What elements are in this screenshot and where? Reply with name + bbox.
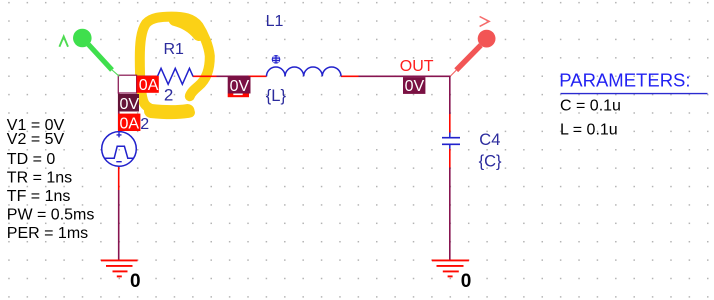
probe marker (red) thin tip wire	[451, 70, 457, 76]
bias current label 0A at source (over ref V2)	[118, 114, 140, 133]
ground 0 (right)	[432, 260, 469, 276]
capacitor C4 plates	[442, 138, 460, 145]
svg-text:TD = 0: TD = 0	[7, 151, 56, 168]
junction box (white) at source top node	[118, 75, 136, 93]
probe marker (green) head circle	[73, 29, 92, 48]
svg-text:0: 0	[130, 271, 141, 292]
svg-text:L1: L1	[266, 13, 284, 30]
wire: inductor right pin (red)	[341, 75, 359, 77]
svg-text:TF = 1ns: TF = 1ns	[7, 188, 71, 205]
bias current label 0A at resistor input	[137, 76, 159, 94]
wire: resistor right pin (red)	[193, 75, 217, 77]
resistor R1 zigzag	[158, 68, 194, 84]
svg-text:2: 2	[140, 116, 149, 133]
bias voltage label 0V between R1 and L1	[228, 76, 251, 97]
wire: source bottom pin (red)	[118, 166, 120, 190]
svg-text:2: 2	[164, 85, 173, 104]
source V2 pulse (VPULSE) body	[102, 132, 137, 167]
svg-text:R1: R1	[164, 41, 185, 58]
wire: main horizontal net from junction to resistor	[119, 75, 151, 77]
wire: capacitor bottom pin (red)	[449, 149, 451, 168]
svg-text:0V: 0V	[120, 96, 140, 113]
source V2 minus sign	[116, 161, 121, 163]
svg-text:OUT: OUT	[400, 58, 434, 75]
wire: vertical OUT net down to capacitor	[449, 76, 451, 115]
probe marker (green current probe) stem	[89, 45, 113, 71]
PARAMETERS block underline	[561, 93, 708, 95]
probe marker (red) chevron glyph	[480, 17, 490, 27]
source V2 plus sign	[117, 132, 122, 137]
svg-text:PW = 0.5ms: PW = 0.5ms	[7, 207, 95, 224]
source V2 parameter text block	[7, 117, 95, 242]
svg-text:L = 0.1u: L = 0.1u	[560, 122, 618, 139]
wire: source to left ground	[118, 190, 120, 260]
svg-text:{C}: {C}	[479, 152, 502, 170]
wire: net between resistor and inductor	[217, 75, 249, 77]
svg-text:C4: C4	[479, 131, 500, 149]
bias voltage label 0V at OUT	[403, 77, 425, 95]
inductor L1 coil	[267, 67, 342, 76]
probe marker (red) head circle	[478, 30, 496, 48]
svg-text:0A: 0A	[139, 77, 159, 94]
wire: inductor left pin (red)	[249, 75, 267, 77]
svg-text:0V: 0V	[230, 78, 250, 95]
bias voltage label 0V at source top	[118, 94, 139, 113]
svg-text:PER = 1ms: PER = 1ms	[7, 225, 88, 242]
svg-text:0V: 0V	[405, 78, 425, 95]
annotation: yellow highlighter loop around R1	[140, 17, 210, 113]
svg-text:V2 = 5V: V2 = 5V	[7, 131, 65, 148]
ground 0 (left)	[101, 260, 138, 276]
wire: capacitor top pin (red)	[449, 114, 451, 133]
wire: resistor left pin (red)	[151, 75, 158, 77]
wire: junction down behind bias boxes to source	[118, 76, 120, 132]
probe marker (red voltage probe) stem	[456, 45, 481, 70]
svg-text:{L}: {L}	[266, 87, 287, 105]
svg-text:TR = 1ns: TR = 1ns	[7, 170, 72, 187]
svg-text:C = 0.1u: C = 0.1u	[560, 98, 621, 115]
inductor L1 pin-1 dot marker	[272, 55, 281, 64]
wire: net OUT from inductor to corner	[359, 75, 451, 77]
svg-text:0: 0	[461, 271, 472, 292]
probe marker (green) thin tip wire	[112, 70, 120, 77]
svg-text:PARAMETERS:: PARAMETERS:	[559, 69, 690, 90]
probe marker (green) caret glyph	[59, 37, 68, 47]
wire: capacitor to right ground	[449, 168, 451, 261]
svg-text:0A: 0A	[120, 116, 140, 133]
